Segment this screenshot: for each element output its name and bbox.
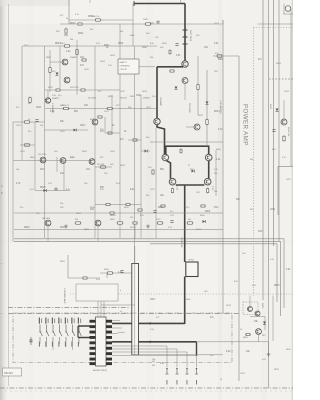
thick speaker line	[112, 322, 185, 324]
wire rail x95	[94, 46, 96, 238]
svg-text:2SC1740: 2SC1740	[70, 87, 79, 89]
svg-text:6800: 6800	[118, 43, 124, 45]
stub y332	[118, 331, 125, 333]
thick rung collector	[166, 146, 209, 154]
staircase drop 4	[196, 355, 198, 367]
thick jog	[157, 125, 165, 155]
svg-text:VR RELAY: VR RELAY	[180, 237, 183, 248]
wire TL rail1	[49, 50, 51, 92]
diode mark D601	[183, 29, 188, 31]
scan streak 5	[262, 0, 267, 400]
svg-text:C617: C617	[142, 47, 148, 49]
resistor R21	[206, 119, 208, 126]
wire y142 rail	[150, 141, 223, 143]
svg-text:10k: 10k	[60, 203, 63, 205]
wire TL link	[50, 61, 62, 63]
wire bottom border 1 drop	[283, 239, 285, 308]
diode D1	[56, 73, 59, 76]
staircase drop 2	[176, 349, 178, 367]
ground G30	[65, 224, 67, 226]
IC top feed rail	[101, 304, 135, 306]
mute box	[76, 284, 118, 301]
svg-text:10k: 10k	[40, 125, 43, 127]
transistor Q607	[205, 154, 212, 161]
wire y213 rail	[14, 212, 223, 214]
resistor R20	[197, 84, 199, 91]
resistor R emitter 1	[172, 188, 174, 194]
svg-text:2SD525: 2SD525	[120, 98, 127, 100]
thick output drop	[184, 185, 186, 262]
resistor R17	[100, 166, 107, 168]
svg-text:2SC: 2SC	[110, 164, 114, 166]
transistor Q73	[256, 329, 262, 335]
wire y222 row rail	[14, 229, 223, 231]
wire y190	[35, 190, 70, 192]
wire TL rail3	[76, 40, 78, 95]
svg-text:b: b	[120, 290, 121, 292]
wire rail x13	[12, 122, 14, 242]
svg-text:C611: C611	[136, 95, 142, 97]
wire bottom border 3	[150, 243, 277, 245]
dotted mid rail	[70, 293, 293, 295]
wire rail x134	[134, 46, 136, 264]
wire TL out	[45, 89, 120, 91]
capacitor C22	[175, 43, 178, 45]
bottom faint rule	[0, 390, 293, 392]
wire q20 tail	[184, 84, 186, 100]
svg-text:Q625: Q625	[261, 303, 263, 309]
resistor R61	[216, 55, 223, 57]
svg-text:8.2k: 8.2k	[234, 281, 238, 283]
staircase drop 3	[186, 352, 188, 367]
svg-text:C3HAMP: C3HAMP	[159, 97, 162, 107]
long bus drop	[238, 56, 240, 381]
svg-text:R649: R649	[110, 219, 115, 221]
svg-text:47: 47	[188, 165, 190, 167]
left edge scan shading	[0, 0, 7, 400]
relay box RL601	[186, 262, 198, 277]
svg-text:2SC: 2SC	[214, 71, 218, 73]
svg-text:C611: C611	[36, 107, 42, 109]
wire R61 rail	[213, 55, 239, 57]
wire bend left	[68, 255, 100, 278]
resistor R37	[157, 222, 164, 224]
diode D51	[276, 109, 279, 112]
svg-text:10k: 10k	[16, 169, 19, 171]
resistor R13	[29, 97, 31, 104]
svg-text:C617: C617	[80, 125, 86, 127]
svg-text:1k: 1k	[220, 379, 222, 381]
svg-text:0.01: 0.01	[176, 55, 181, 57]
svg-text:1k: 1k	[28, 119, 30, 121]
wire y46 rail	[22, 45, 157, 47]
transistor Q605	[162, 154, 169, 161]
wire x22 drop	[21, 46, 23, 161]
wire right mid	[283, 100, 285, 119]
svg-text:R615: R615	[274, 285, 280, 287]
svg-text:2.2k: 2.2k	[170, 215, 174, 217]
svg-text:1k: 1k	[240, 329, 242, 331]
svg-text:2SC: 2SC	[56, 31, 60, 33]
diode D14	[145, 150, 148, 153]
svg-text:33k: 33k	[250, 159, 253, 161]
svg-text:33k: 33k	[128, 107, 131, 109]
resistor R1	[95, 19, 102, 21]
resistor R6	[49, 67, 51, 74]
transistor Q609	[169, 178, 176, 185]
svg-text:2SC1740: 2SC1740	[38, 154, 47, 156]
dotted bus wire	[253, 28, 255, 296]
scan wash 2	[8, 95, 153, 240]
thick output drop 2	[184, 277, 186, 325]
bottom chain line	[0, 387, 293, 389]
transistor Q15	[60, 158, 66, 164]
wire bottom border 1	[14, 238, 284, 240]
contact labels	[166, 380, 169, 385]
thick stub left b	[78, 337, 90, 339]
svg-text:SAFETY: SAFETY	[120, 61, 128, 64]
svg-text:2SC1400: 2SC1400	[88, 98, 96, 100]
transistor Q12	[92, 119, 98, 125]
svg-text:33k: 33k	[90, 29, 93, 31]
wire right mid 2	[290, 8, 292, 167]
wire upper mid x198	[197, 56, 199, 115]
svg-text:R623: R623	[24, 227, 30, 229]
transistor Q51	[281, 119, 287, 125]
meter box side	[277, 167, 279, 216]
svg-text:R631: R631	[88, 16, 94, 18]
svg-text:D613: D613	[110, 215, 116, 217]
resistor R18	[97, 116, 103, 118]
transistor Q13	[45, 98, 50, 103]
svg-text:4.7k: 4.7k	[214, 169, 218, 171]
left margin rule	[8, 4, 10, 386]
svg-text:AN7062 DRIVE: AN7062 DRIVE	[93, 369, 108, 372]
svg-text:D501: D501	[269, 104, 271, 110]
paper mottling band	[218, 0, 222, 400]
resistor R10	[63, 108, 70, 110]
resistor R7	[55, 89, 61, 91]
resistor R38	[187, 222, 194, 224]
svg-text:OPERATED: OPERATED	[120, 65, 131, 68]
svg-text:33k: 33k	[150, 57, 153, 59]
svg-text:8.2k: 8.2k	[66, 189, 70, 191]
transistor Q71	[248, 307, 253, 312]
narrow box bottom rail	[132, 354, 223, 356]
transistor Q21	[194, 124, 200, 130]
svg-text:C611: C611	[270, 209, 276, 211]
svg-text:R631: R631	[104, 45, 110, 47]
resistor R32	[109, 212, 115, 214]
selector cap C90	[30, 337, 32, 345]
wire q21 link	[186, 126, 194, 128]
transistor Q603	[154, 118, 160, 124]
svg-text:47u: 47u	[62, 105, 65, 107]
wire x273 seg	[272, 296, 274, 342]
svg-text:10k: 10k	[130, 217, 133, 219]
resistor R8	[80, 89, 86, 91]
capacitor C51	[272, 129, 275, 131]
diode D20	[206, 102, 209, 105]
connector J1 leads	[283, 4, 285, 15]
svg-text:D613: D613	[60, 227, 66, 229]
wire TL rail2	[59, 46, 61, 88]
thick output rung	[176, 184, 205, 186]
svg-text:CIRCUIT: CIRCUIT	[120, 69, 129, 71]
resistor R41	[107, 272, 114, 274]
transistor Q16	[89, 159, 95, 165]
wire rail x156 low	[155, 128, 157, 238]
svg-text:2SC: 2SC	[196, 192, 200, 194]
wire y167	[95, 166, 112, 168]
pin wire 3	[112, 354, 197, 356]
wire x107 stub	[106, 273, 108, 278]
svg-text:8.2k: 8.2k	[140, 215, 144, 217]
diode D21	[175, 87, 178, 90]
IC top feeds	[97, 301, 99, 317]
wire x265 drop	[264, 317, 266, 331]
svg-text:2.2k: 2.2k	[150, 329, 154, 331]
wire rail x141	[140, 95, 142, 238]
wire bottom border 2	[14, 240, 281, 242]
staircase drop 1	[166, 346, 168, 367]
main enclosure right border	[222, 20, 224, 313]
svg-text:8.2k: 8.2k	[272, 149, 276, 151]
svg-text:2SC1400: 2SC1400	[42, 218, 50, 220]
resistor R11	[107, 108, 114, 110]
pin stub c	[112, 333, 118, 335]
wire x112	[111, 95, 113, 133]
resistor R71	[245, 334, 251, 336]
thick return drop	[196, 342, 198, 356]
svg-text:R615: R615	[40, 187, 46, 189]
svg-text:2SC: 2SC	[258, 231, 263, 233]
resistor R31	[125, 204, 131, 206]
thick stub left join	[77, 326, 79, 338]
transistor Q20	[182, 78, 188, 84]
wire rail x44	[44, 46, 46, 238]
svg-text:47u: 47u	[186, 207, 189, 209]
thick feed top horizontal	[134, 3, 185, 5]
thick return line	[112, 341, 197, 343]
safety box	[118, 59, 139, 74]
svg-text:R515 10k: R515 10k	[287, 127, 289, 137]
transistor Q30	[45, 220, 51, 226]
wire bottom border 2 drop	[280, 241, 282, 316]
svg-text:0.01: 0.01	[160, 363, 165, 365]
svg-text:2.2k: 2.2k	[24, 45, 28, 47]
svg-text:POWER AMP: POWER AMP	[242, 104, 249, 146]
wire top-left vertical	[68, 0, 70, 24]
capacitor C15	[54, 187, 57, 189]
arrow return line	[150, 340, 152, 343]
connector contacts	[166, 368, 168, 370]
capacitor C12	[35, 119, 38, 121]
wire q72 link	[250, 316, 265, 318]
resistor R23	[169, 50, 171, 55]
resistor R22	[169, 70, 175, 72]
thick stub left a	[78, 325, 90, 327]
wire top short rail	[69, 19, 133, 21]
svg-text:47u: 47u	[28, 131, 31, 133]
scan streak 1	[228, 0, 293, 400]
diode D30	[203, 220, 206, 223]
pin wire 1	[112, 348, 177, 350]
top-left corner shading	[0, 0, 70, 6]
svg-text:33k: 33k	[146, 195, 149, 197]
capacitor C30	[153, 210, 156, 212]
chain line mid	[8, 307, 130, 309]
svg-text:R623: R623	[70, 23, 76, 25]
svg-text:R615: R615	[158, 207, 164, 209]
resistor R0	[77, 23, 83, 25]
resistor R52	[283, 135, 285, 142]
resistor R3	[64, 45, 71, 47]
wire y140	[128, 139, 141, 141]
scan wash	[10, 24, 223, 242]
chain line selector top	[8, 313, 240, 315]
resistor R4	[76, 49, 78, 56]
scan streak 4	[0, 240, 293, 243]
svg-text:6800: 6800	[205, 211, 211, 213]
svg-text:10k: 10k	[152, 359, 155, 361]
transistor Q611	[204, 178, 211, 185]
wire top stub	[132, 4, 134, 47]
wire q73 tail	[258, 335, 260, 342]
wire safety stub	[139, 66, 155, 68]
diode mark D602	[183, 36, 188, 38]
svg-text:2SC: 2SC	[262, 335, 266, 337]
wire y145	[20, 144, 35, 146]
resistor R33	[137, 209, 143, 211]
top rail	[258, 23, 294, 25]
wire y341 thin	[197, 341, 269, 343]
svg-text:2SC: 2SC	[60, 207, 64, 209]
transistor Q72	[255, 311, 260, 316]
thick link left	[157, 66, 183, 68]
selector dashed border	[13, 313, 232, 363]
diode mark D603	[183, 43, 188, 45]
thick drop x157	[156, 67, 158, 119]
svg-text:4.7k: 4.7k	[75, 14, 79, 16]
resistor R40	[82, 277, 88, 279]
svg-text:1k: 1k	[66, 18, 68, 20]
wire rail x120	[119, 24, 121, 238]
scan streak 2	[28, 0, 34, 400]
wire y151	[141, 150, 150, 152]
resistor R0b	[65, 28, 67, 35]
resistor R12	[24, 121, 31, 123]
meter box edge	[278, 166, 293, 168]
dashed rail	[269, 78, 293, 80]
svg-text:47u: 47u	[170, 211, 173, 213]
svg-text:2.2k: 2.2k	[48, 183, 52, 185]
svg-text:1k: 1k	[120, 311, 122, 313]
wire r36 drop	[134, 224, 136, 239]
svg-text:2.2k: 2.2k	[108, 65, 112, 67]
narrow tall box	[132, 264, 139, 355]
bus wire 4	[278, 0, 280, 241]
scan streak 3	[146, 0, 153, 400]
right edge line	[291, 0, 293, 400]
svg-text:4.7k: 4.7k	[282, 157, 286, 159]
bus wire 3	[273, 0, 275, 246]
resistor R14	[107, 132, 113, 134]
thick feed top tick	[133, 1, 135, 6]
transistor Q31	[95, 220, 101, 226]
diode D ladder	[192, 170, 195, 173]
bus wire 2	[267, 0, 269, 388]
narrow box inner wire	[134, 264, 136, 355]
svg-text:0.01: 0.01	[214, 43, 219, 45]
wire y273	[100, 272, 132, 274]
svg-text:SB-333: SB-333	[4, 371, 13, 375]
svg-text:CHD1986: CHD1986	[188, 103, 190, 113]
scan wash 3	[13, 313, 232, 363]
svg-text:RY601: RY601	[189, 260, 195, 262]
svg-text:220 1W: 220 1W	[97, 164, 104, 166]
selector switch row	[39, 325, 41, 332]
wire top stub corner	[180, 0, 182, 4]
svg-text:L-POWER AMP: L-POWER AMP	[63, 288, 66, 304]
thick drop Q605-Q609	[167, 161, 171, 179]
ground G31	[147, 224, 149, 226]
pin wire 2	[112, 351, 187, 353]
bus wire 1	[262, 0, 264, 300]
svg-text:56k: 56k	[70, 39, 73, 41]
thick feed drop	[184, 4, 186, 61]
diode D15	[44, 189, 47, 192]
resistor R5	[81, 59, 87, 61]
protect dashed box	[243, 302, 258, 315]
resistor R39a	[160, 205, 166, 207]
svg-text:2.2k: 2.2k	[52, 95, 56, 97]
transistor Q1	[62, 59, 68, 65]
wire x268 tail	[268, 342, 270, 352]
wire top stub x90	[89, 0, 91, 3]
diode D71	[263, 322, 266, 325]
svg-text:6800: 6800	[218, 59, 224, 61]
svg-text:C627: C627	[156, 219, 161, 221]
wire y133	[105, 132, 120, 134]
svg-text:474: 474	[75, 219, 78, 221]
transistor Q2	[64, 77, 70, 83]
resistor R emitter 2	[207, 188, 209, 194]
resistor R39b	[200, 205, 206, 207]
svg-text:8.2k: 8.2k	[100, 189, 104, 191]
IC left pins	[90, 320, 96, 323]
arrow speaker line	[150, 322, 152, 325]
wire y108 rail	[45, 108, 157, 110]
svg-text:2SC: 2SC	[40, 169, 45, 171]
resistor R2	[145, 23, 152, 25]
wire q31 drop	[97, 226, 99, 241]
IC body	[96, 317, 107, 366]
diode D13	[74, 129, 77, 132]
svg-text:4.7k: 4.7k	[270, 259, 274, 261]
svg-text:2SA872: 2SA872	[52, 97, 60, 100]
svg-text:2SB595: 2SB595	[143, 98, 150, 100]
resistor R35	[117, 222, 124, 224]
wire rail x223 upper	[222, 20, 224, 24]
resistor R34	[75, 222, 82, 224]
wire upper mid x207	[206, 70, 208, 145]
svg-text:D613: D613	[214, 111, 220, 113]
svg-text:10k: 10k	[188, 219, 191, 221]
capacitor C31	[170, 220, 173, 222]
capacitor C40	[120, 270, 123, 272]
wire q30 drop	[47, 226, 49, 241]
